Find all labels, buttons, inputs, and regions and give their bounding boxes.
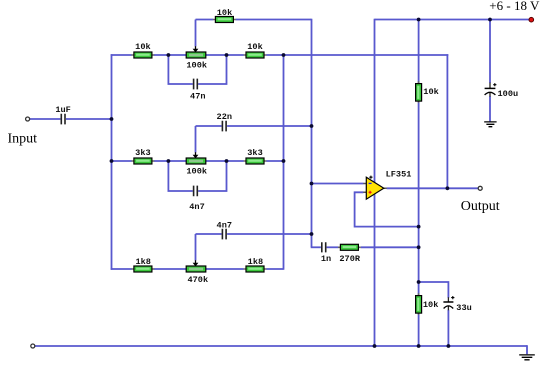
terminal input [26, 117, 30, 121]
wire top row segment 4 to output drop [266, 54, 448, 56]
junction middle row / right bus [282, 159, 286, 163]
terminal +V (red) [529, 17, 534, 22]
wire op-amp supply drop (V+ rail through amp to ground rail) [374, 19, 376, 346]
wire wiper arrow stem bottom pot [195, 234, 197, 260]
junction ground rail / op-amp supply drop [373, 344, 377, 348]
svg-text:47n: 47n [190, 92, 205, 102]
svg-text:10k: 10k [217, 8, 232, 18]
resistor 3k3 middle row right [244, 158, 267, 164]
junction top row / 47n left [167, 53, 171, 57]
capacitor 100u electrolytic [485, 83, 497, 97]
op-amp U1 LF351 [363, 176, 387, 200]
svg-text:Input: Input [8, 131, 38, 146]
svg-text:4n7: 4n7 [189, 202, 204, 212]
svg-text:470k: 470k [187, 275, 208, 285]
label 100k (mid pot) [186, 166, 207, 176]
junction ground rail / divider [417, 344, 421, 348]
svg-text:100u: 100u [498, 89, 519, 99]
junction divider / feedback loop [417, 225, 421, 229]
resistor 270R [338, 244, 361, 250]
wire divider lower to rail [418, 313, 420, 347]
wire power rail [375, 19, 530, 21]
junction middle row / 4n7 left [167, 159, 171, 163]
svg-text:3k3: 3k3 [247, 148, 262, 158]
capacitor 33u electrolytic [443, 296, 454, 310]
label 10k (top feedback) [217, 8, 232, 18]
resistor 10k top feedback [213, 17, 236, 23]
capacitor 1uF [61, 114, 65, 125]
junction middle row / 4n7 right [225, 159, 229, 163]
junction ground rail / 33u [447, 344, 451, 348]
resistor 10k top row left [132, 52, 155, 58]
resistor 1k8 bottom row right [244, 266, 267, 272]
wire input terminal to 1uF [30, 118, 61, 120]
wire top row segment 1 [111, 54, 132, 56]
wire 47n loop [168, 55, 226, 84]
label 10k (divider upper) [423, 87, 438, 97]
wire feedback top line left [196, 19, 214, 21]
svg-text:1k8: 1k8 [248, 257, 263, 267]
wire bottom row segment 4 [266, 268, 283, 270]
wire bottom row segment 2 [154, 268, 187, 270]
wire top row segment 2 [154, 54, 187, 56]
svg-text:1n: 1n [321, 254, 331, 264]
capacitor 4n7 bottom band [222, 229, 226, 240]
potentiometer 100k treble [186, 46, 206, 58]
label 4n7 (bottom band) [217, 221, 232, 231]
label 47n [190, 92, 205, 102]
label 33u [456, 303, 471, 313]
wire 1n to 270R [327, 246, 339, 248]
junction top row / 47n right [225, 53, 229, 57]
svg-text:10k: 10k [247, 42, 262, 52]
wire middle row segment 1 [111, 160, 132, 162]
wire bottom row segment 3 [206, 268, 244, 270]
svg-text:100k: 100k [186, 61, 207, 71]
junction inverting input / bus [310, 182, 314, 186]
resistor 10k divider lower (vertical) [416, 293, 422, 315]
svg-text:1k8: 1k8 [135, 257, 150, 267]
wire input bus vertical x=111.5 [111, 54, 113, 270]
capacitor 22n [222, 121, 226, 132]
wire ground stub bottom right [526, 345, 528, 354]
wire output drop from top row [446, 54, 448, 188]
potentiometer 100k mid [186, 152, 206, 164]
wire 1n branch horizontal [311, 246, 321, 248]
label 100k (treble pot) [186, 61, 207, 71]
junction power rail / divider [417, 18, 421, 22]
svg-text:+6 - 18 V: +6 - 18 V [489, 0, 540, 13]
junction middle row / bus [110, 159, 114, 163]
junction 22n / inverting bus [310, 124, 314, 128]
label 3k3 (middle row left) [135, 148, 150, 158]
junction divider / 33u branch [417, 280, 421, 284]
label 22n [217, 112, 232, 122]
terminal output [478, 186, 482, 190]
capacitor 4n7 mid loop [194, 186, 198, 197]
svg-text:1uF: 1uF [55, 105, 70, 115]
wire bottom row segment 1 [111, 268, 132, 270]
label 4n7 (mid loop) [189, 202, 204, 212]
svg-text:LF351: LF351 [386, 169, 412, 179]
svg-text:22n: 22n [217, 112, 232, 122]
svg-text:10k: 10k [135, 42, 150, 52]
wire wiper arrow stem middle pot [195, 126, 197, 152]
junction bottom 4n7 / bus [310, 232, 314, 236]
svg-text:10k: 10k [423, 300, 438, 310]
wire middle row segment 4 [266, 160, 283, 162]
wire inverting input to op-amp [312, 183, 364, 185]
wire op-amp output [387, 187, 478, 189]
wire top row segment 3 [206, 54, 244, 56]
label 1n [321, 254, 331, 264]
svg-text:Output: Output [461, 199, 500, 214]
wire 100u branch lower to ground [489, 96, 491, 121]
terminal ground (bottom left) [31, 344, 35, 348]
wire right bus vertical x=283.5 [283, 54, 285, 270]
wire middle 4n7 loop [168, 161, 226, 191]
label 1k8 (bottom row right) [248, 257, 263, 267]
wire 270R to divider node [361, 246, 419, 248]
label 3k3 (middle row right) [247, 148, 262, 158]
wire noninverting feedback loop [355, 192, 419, 226]
resistor 10k divider upper (vertical) [416, 81, 422, 103]
wire divider middle [418, 101, 420, 296]
ground bottom right [519, 355, 535, 360]
wire inverting bus vertical x=311.5 [311, 19, 313, 248]
wire 100u branch upper [489, 20, 491, 84]
label Output [461, 199, 500, 214]
resistor 10k top row right [244, 52, 267, 58]
junction top row / right bus [282, 53, 286, 57]
label 470k (bass pot) [187, 275, 208, 285]
svg-text:33u: 33u [456, 303, 471, 313]
label +6 - 18 V [489, 0, 540, 13]
junction input / bus [110, 117, 114, 121]
wire bottom ground rail [35, 345, 527, 347]
capacitor 1n [322, 242, 326, 252]
wire wiper arrow stem top pot [195, 20, 197, 47]
label 1k8 (bottom row left) [135, 257, 150, 267]
label 10k (divider lower) [423, 300, 438, 310]
svg-text:10k: 10k [423, 87, 438, 97]
label 100u [498, 89, 519, 99]
label LF351 [386, 169, 412, 179]
svg-text:4n7: 4n7 [217, 221, 232, 231]
wire 22n line [196, 125, 312, 127]
svg-text:270R: 270R [339, 254, 360, 264]
potentiometer 470k bass [186, 260, 206, 272]
junction output / top row drop [446, 186, 450, 190]
wire middle row segment 2 [154, 160, 187, 162]
label 270R [339, 254, 360, 264]
label 10k (top row right) [247, 42, 262, 52]
svg-text:100k: 100k [186, 166, 207, 176]
wire divider upper (V+ to 10k) [418, 19, 420, 84]
resistor 1k8 bottom row left [132, 266, 155, 272]
wire bottom band 4n7 line [196, 233, 312, 235]
label 10k (top row left) [135, 42, 150, 52]
wire 33u branch bottom [447, 310, 449, 346]
label 1uF [55, 105, 70, 115]
resistor 3k3 middle row left [132, 158, 155, 164]
wire middle row segment 3 [206, 160, 244, 162]
ground under 100u [484, 122, 496, 127]
capacitor 47n [194, 79, 198, 90]
wire 33u branch top [419, 282, 449, 298]
svg-text:3k3: 3k3 [135, 148, 150, 158]
label Input [8, 131, 38, 146]
junction divider / 270R [417, 245, 421, 249]
junction power rail / 100u [488, 18, 492, 22]
wire 1uF to input bus [66, 118, 112, 120]
wire feedback top line right to inverting bus [236, 19, 312, 21]
